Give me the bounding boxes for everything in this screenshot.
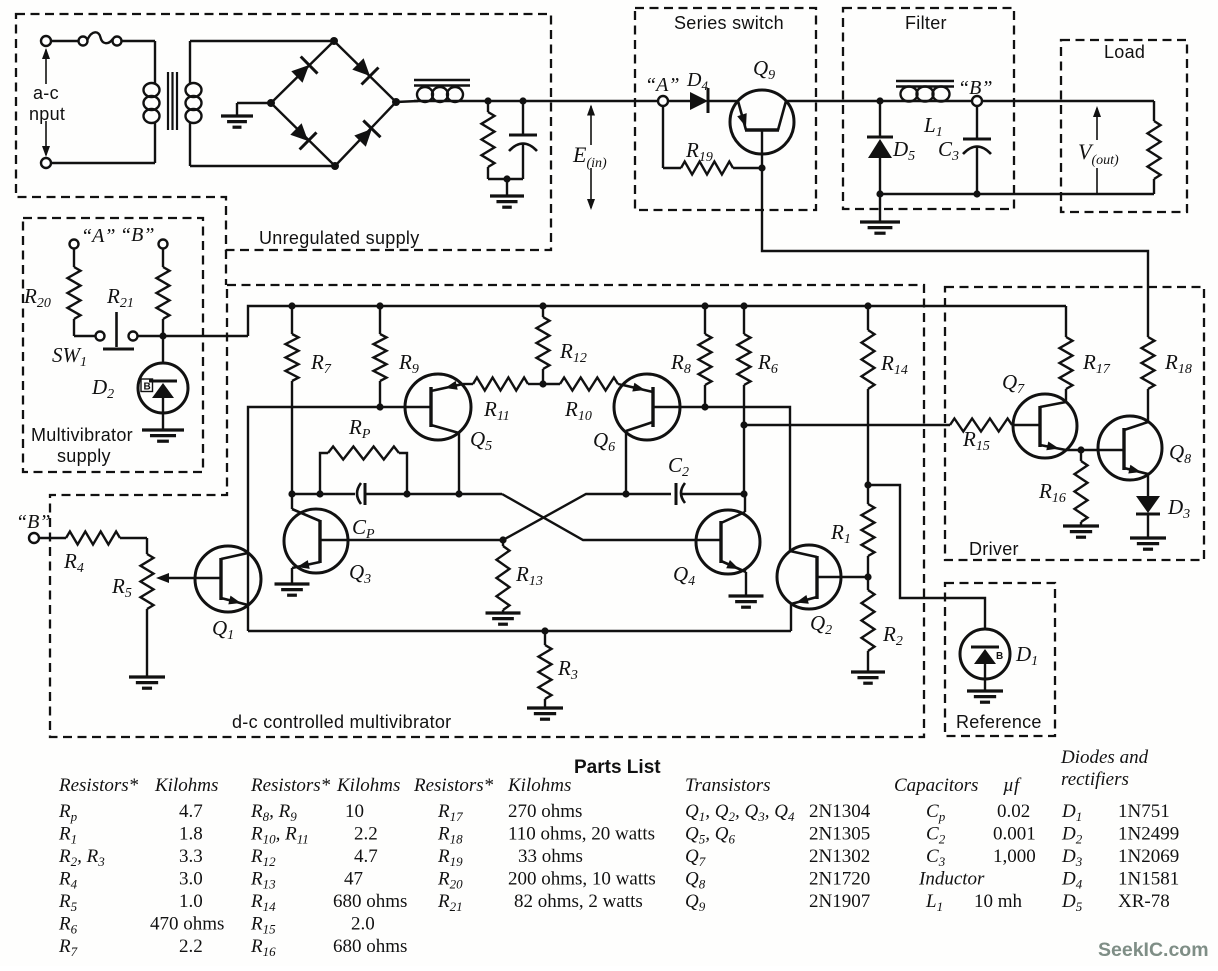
wire: D4 to Q9 xyxy=(708,100,738,102)
wire: bridge right corner to choke xyxy=(396,101,418,102)
resistor R10 xyxy=(543,383,560,385)
ground below Q4 xyxy=(729,594,764,597)
load resistor xyxy=(1153,101,1155,121)
svg-text:nput: nput xyxy=(29,104,65,124)
node: bridge right corner xyxy=(392,98,400,106)
terminal A in supply xyxy=(70,240,79,249)
box: Filter (dashed) xyxy=(843,8,1014,209)
transistor Q8 xyxy=(1098,416,1162,480)
bridge rectifier diamond xyxy=(271,41,334,103)
node: filter RC bottom xyxy=(503,175,510,182)
node: R12 bottom / R11 / R10 xyxy=(539,380,546,387)
box: d-c controlled multivibrator (dashed) xyxy=(50,285,924,737)
capacitor Cp xyxy=(357,483,361,504)
resistor R21 xyxy=(162,248,164,267)
V(out) arrow and label xyxy=(1096,108,1098,140)
node: D5 top xyxy=(876,97,883,104)
node: rail R7 xyxy=(288,302,295,309)
svg-text:110 ohms, 20 watts: 110 ohms, 20 watts xyxy=(508,824,655,845)
resistor R18 xyxy=(1142,337,1155,389)
node: C2 right / Q4 collector xyxy=(740,490,747,497)
node: Q3 base / R13 / crossover xyxy=(499,536,506,543)
transistor Q2 xyxy=(777,545,841,609)
svg-text:Filter: Filter xyxy=(905,13,947,33)
svg-text:Capacitors: Capacitors xyxy=(894,775,978,796)
wire: to reference diode D1 xyxy=(868,485,985,629)
svg-text:470 ohms: 470 ohms xyxy=(150,914,224,935)
resistor R2 xyxy=(867,577,869,590)
svg-text:Q5, Q6: Q5, Q6 xyxy=(685,824,735,847)
svg-text:Series switch: Series switch xyxy=(674,13,784,33)
svg-text:2N1302: 2N1302 xyxy=(809,846,870,867)
transistor Q5 xyxy=(405,374,471,440)
bridge diode top-right xyxy=(352,58,370,76)
node: Q5 collector on Cp bus xyxy=(455,490,462,497)
svg-text:1N2499: 1N2499 xyxy=(1118,824,1179,845)
wire: SW1 to supply node xyxy=(138,335,164,337)
svg-text:2N1305: 2N1305 xyxy=(809,824,870,845)
svg-text:1.8: 1.8 xyxy=(179,824,203,845)
svg-text:270 ohms: 270 ohms xyxy=(508,801,582,822)
node: R7/Q3 on Cp bus xyxy=(288,490,295,497)
svg-text:Resistors*: Resistors* xyxy=(58,775,139,796)
diode D4 xyxy=(690,92,708,110)
box: Unregulated supply (dashed, notched bottom) xyxy=(16,14,551,250)
wire: secondary bottom to bridge xyxy=(190,165,335,167)
resistor R14 xyxy=(867,306,869,330)
svg-text:SeekIC.com: SeekIC.com xyxy=(1098,939,1209,961)
svg-text:R8, R9: R8, R9 xyxy=(250,801,297,824)
transistor Q1 xyxy=(195,546,261,612)
resistor R20 xyxy=(73,248,75,267)
transistor Q9 xyxy=(730,90,794,154)
terminal B at multivibrator input xyxy=(29,533,39,543)
svg-text:Load: Load xyxy=(1104,42,1145,62)
resistor R12 xyxy=(542,306,544,317)
node: C3 bottom xyxy=(973,190,980,197)
svg-text:“B”: “B” xyxy=(16,511,50,533)
filter choke winding xyxy=(414,100,488,102)
terminal B in supply xyxy=(159,240,168,249)
wire: multivibrator bottom bus xyxy=(248,630,791,632)
svg-text:a-c: a-c xyxy=(33,83,59,103)
wire: bottom terminal to transformer primary xyxy=(51,162,155,164)
ground below filter RC xyxy=(506,179,508,196)
resistor R7 xyxy=(291,306,293,334)
filter resistor (vertical) xyxy=(487,101,489,112)
box: Load (dashed) xyxy=(1061,40,1187,212)
node: R3 on bottom bus xyxy=(541,627,548,634)
potentiometer R5 xyxy=(146,538,148,554)
resistor R1 xyxy=(867,485,869,504)
svg-text:d-c controlled multivibrator: d-c controlled multivibrator xyxy=(232,712,451,732)
wire: Q5 collector down to Cp bus xyxy=(458,433,460,494)
resistor R8 xyxy=(704,306,706,334)
node: rail R12 xyxy=(539,302,546,309)
inductor L1 winding xyxy=(898,100,972,102)
wire: crossover diagonal Q3 base to C2 bus xyxy=(503,494,671,540)
resistor R17 xyxy=(1065,306,1067,337)
node: Q6 collector on C2 bus xyxy=(622,490,629,497)
node: choke output / filter R top xyxy=(484,97,491,104)
node: D5 bottom xyxy=(876,190,883,197)
ground at bridge xyxy=(221,114,253,117)
node: R14 bottom / R1 / reference wire xyxy=(864,481,871,488)
wire: R6 node down to C2 bus xyxy=(743,425,745,494)
svg-text:10: 10 xyxy=(345,801,364,822)
wire: Q9 base down to R19 node xyxy=(761,130,763,168)
transistor Q4 xyxy=(696,510,760,574)
svg-text:1N2069: 1N2069 xyxy=(1118,846,1179,867)
wire: fuse to transformer primary xyxy=(121,40,155,42)
wire: Q4 emitter to ground xyxy=(745,572,747,596)
node: bridge bottom corner xyxy=(331,162,339,170)
inductor L1 core xyxy=(896,80,954,82)
bridge diode top-left xyxy=(291,65,309,83)
svg-text:“B”: “B” xyxy=(120,224,154,246)
svg-text:supply: supply xyxy=(57,446,111,466)
node: R6 bottom / C2 / R15 xyxy=(740,421,747,428)
dashed connector segment below unregulated box xyxy=(225,250,227,285)
resistor R4 xyxy=(39,537,66,539)
capacitor C2 xyxy=(675,483,678,505)
wire: A to D4 xyxy=(668,100,690,102)
filter bottom rail xyxy=(880,193,1154,195)
svg-text:200 ohms, 10 watts: 200 ohms, 10 watts xyxy=(508,869,656,890)
svg-text:2N1907: 2N1907 xyxy=(809,891,870,912)
svg-text:1.0: 1.0 xyxy=(179,891,203,912)
svg-text:82 ohms, 2 watts: 82 ohms, 2 watts xyxy=(514,891,643,912)
wire: Q6 base line to Q2 collector xyxy=(653,407,790,551)
E(in) arrow and label xyxy=(590,106,592,145)
diode D5 (free-wheeling) xyxy=(879,101,881,137)
wire: Q3 emitter to ground xyxy=(291,568,293,584)
diode D3 xyxy=(1147,474,1149,496)
breakdown diode D2 xyxy=(162,336,164,363)
ground below D1 xyxy=(967,689,1003,692)
terminal A on main line xyxy=(658,96,668,106)
svg-text:Transistors: Transistors xyxy=(685,775,771,796)
svg-text:Driver: Driver xyxy=(969,539,1019,559)
wire: Q9 collector to filter xyxy=(786,100,898,102)
node: supply output xyxy=(159,332,166,339)
ground below D2 xyxy=(142,428,184,431)
wire: Q3 base line xyxy=(320,539,503,541)
wire: C2 to R6 node xyxy=(682,493,744,495)
resistor R3 xyxy=(544,631,546,645)
svg-text:“A”: “A” xyxy=(645,74,679,96)
wire: secondary top to bridge xyxy=(190,40,334,42)
node: bridge top corner xyxy=(330,37,338,45)
svg-text:2.0: 2.0 xyxy=(351,914,375,935)
svg-text:0.02: 0.02 xyxy=(997,801,1030,822)
svg-text:Kilohms: Kilohms xyxy=(507,775,571,796)
wire: filter R bottom to cap bottom xyxy=(488,178,523,180)
wire: top terminal to fuse xyxy=(51,40,79,42)
node: filter cap top xyxy=(519,97,526,104)
node: rail R8 xyxy=(701,302,708,309)
svg-text:3.0: 3.0 xyxy=(179,869,203,890)
node: R1 / R2 / Q2 base xyxy=(864,573,871,580)
resistor R16 xyxy=(1080,450,1082,461)
wire: Cp bus left segment xyxy=(292,493,355,495)
transistor Q7 xyxy=(1013,394,1077,458)
wire: Q9 base long run to R18 xyxy=(762,168,1148,337)
node: rail R14 xyxy=(864,302,871,309)
svg-text:4.7: 4.7 xyxy=(179,801,203,822)
resistor R15 xyxy=(744,424,950,426)
terminal: a-c input top xyxy=(41,36,51,46)
svg-text:2N1720: 2N1720 xyxy=(809,869,870,890)
svg-text:4.7: 4.7 xyxy=(354,846,378,867)
wire: main line choke to A terminal xyxy=(488,100,658,102)
resistor R9 xyxy=(379,306,381,334)
svg-text:Resistors*: Resistors* xyxy=(250,775,331,796)
svg-text:2.2: 2.2 xyxy=(354,824,378,845)
svg-text:1N1581: 1N1581 xyxy=(1118,869,1179,890)
switch SW1 xyxy=(96,332,105,341)
transformer T1 primary winding xyxy=(154,41,156,83)
fuse F1 xyxy=(79,37,88,46)
svg-text:Kilohms: Kilohms xyxy=(154,775,218,796)
node: Rp left on Cp bus xyxy=(316,490,323,497)
capacitor C3 xyxy=(976,106,978,139)
svg-text:“A”: “A” xyxy=(81,225,115,247)
svg-text:B: B xyxy=(996,651,1003,662)
transistor Q3 xyxy=(284,509,348,573)
ground below D3 xyxy=(1130,536,1166,539)
svg-text:Unregulated supply: Unregulated supply xyxy=(259,228,420,248)
bridge diode bottom-right xyxy=(354,129,372,147)
resistor Rp (bracket above Cp) xyxy=(320,453,328,494)
transistor Q6 xyxy=(614,374,680,440)
svg-text:2.2: 2.2 xyxy=(179,936,203,957)
box: Reference (dashed) xyxy=(945,583,1055,736)
wire: Q6 collector down to C2 bus xyxy=(625,431,627,494)
transformer T1 core xyxy=(167,72,169,130)
svg-text:Diodes and: Diodes and xyxy=(1060,747,1149,768)
svg-text:2N1304: 2N1304 xyxy=(809,801,871,822)
wire: multivibrator supply rail xyxy=(248,306,1066,336)
ground below Q3 xyxy=(275,582,310,585)
ground below R3 xyxy=(527,706,563,709)
wire: supply node to multivibrator rail xyxy=(163,335,248,337)
box: Series switch (dashed) xyxy=(635,8,816,210)
filter choke core xyxy=(414,79,470,81)
svg-text:µf: µf xyxy=(1003,775,1022,796)
svg-text:“B”: “B” xyxy=(958,77,992,99)
svg-text:Reference: Reference xyxy=(956,712,1042,732)
terminal B at filter output xyxy=(972,96,982,106)
resistor R6 xyxy=(743,306,745,334)
svg-text:Parts List: Parts List xyxy=(574,757,661,778)
transformer T1 secondary winding xyxy=(189,41,191,83)
box: Multivibrator supply (dashed) xyxy=(23,218,203,472)
node: Rp right on Cp bus xyxy=(403,490,410,497)
resistor R11 xyxy=(463,383,473,385)
resistor R19 xyxy=(662,106,664,168)
svg-text:B: B xyxy=(144,382,151,393)
node: rail R6 xyxy=(740,302,747,309)
svg-text:10 mh: 10 mh xyxy=(974,891,1023,912)
ground below D5 xyxy=(879,194,881,222)
breakdown diode D1 xyxy=(960,629,1010,679)
svg-text:33 ohms: 33 ohms xyxy=(518,846,583,867)
wire: Cp to Q5 collector and crossover corner xyxy=(365,493,502,495)
svg-text:R2, R3: R2, R3 xyxy=(58,846,105,869)
node: rail R9 xyxy=(376,302,383,309)
svg-text:rectifiers: rectifiers xyxy=(1061,769,1129,790)
svg-text:Inductor: Inductor xyxy=(918,869,985,890)
ground below R13 xyxy=(486,611,521,614)
wire: Q2 emitter to bottom bus xyxy=(790,604,792,631)
ground below R16 xyxy=(1063,524,1099,527)
bridge diode bottom-left xyxy=(290,123,308,141)
terminal: a-c input bottom xyxy=(41,158,51,168)
svg-text:1,000: 1,000 xyxy=(993,846,1036,867)
wire: B to load xyxy=(982,100,1154,102)
label a-c input with arrows xyxy=(45,50,47,85)
node: bridge left corner xyxy=(267,99,275,107)
svg-text:1N751: 1N751 xyxy=(1118,801,1170,822)
filter capacitor xyxy=(522,101,524,135)
svg-text:680 ohms: 680 ohms xyxy=(333,936,407,957)
node: Q7 emitter / R16 / Q8 base xyxy=(1077,446,1084,453)
ground below R5 xyxy=(129,675,165,678)
wire: crossover diagonal Cp-bus to Q4 base xyxy=(502,494,721,540)
svg-text:0.001: 0.001 xyxy=(993,824,1036,845)
node: R9 bottom on Q5 base line xyxy=(376,403,383,410)
box: Driver (dashed) xyxy=(945,287,1204,560)
wire: Q1 collector riser and Q5 base line xyxy=(248,407,431,631)
node: Q9 base / R19 xyxy=(758,164,765,171)
svg-text:Kilohms: Kilohms xyxy=(336,775,400,796)
svg-text:47: 47 xyxy=(344,869,363,890)
node: R8 bottom on Q6 base line xyxy=(701,403,708,410)
wire: Q7 emitter to Q8 base xyxy=(1066,449,1098,451)
svg-text:Resistors*: Resistors* xyxy=(413,775,494,796)
ground below R2 xyxy=(851,670,885,673)
wire: bridge left corner to ground xyxy=(237,102,271,104)
resistor R13 xyxy=(502,540,504,546)
svg-text:Multivibrator: Multivibrator xyxy=(31,425,133,445)
svg-text:XR-78: XR-78 xyxy=(1118,891,1170,912)
svg-text:680 ohms: 680 ohms xyxy=(333,891,407,912)
svg-text:3.3: 3.3 xyxy=(179,846,203,867)
